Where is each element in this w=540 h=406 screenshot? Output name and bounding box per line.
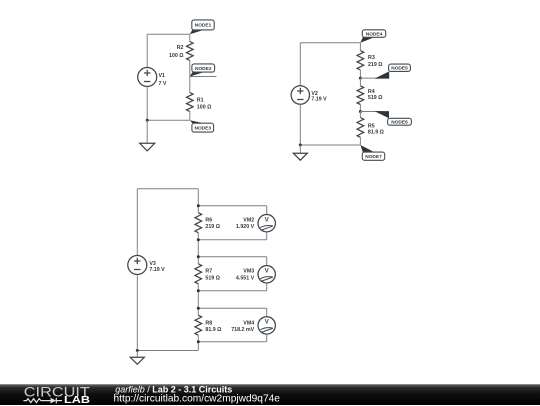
wire [266,308,268,317]
wire [359,70,361,78]
svg-text:LAB: LAB [64,395,90,406]
svg-text:VM3: VM3 [243,268,254,274]
svg-text:R2: R2 [177,45,184,51]
wire [189,34,191,41]
wire [198,205,266,207]
node NODE1 [190,30,204,34]
svg-text:7 V: 7 V [159,81,167,87]
svg-text:100 Ω: 100 Ω [169,53,184,59]
wire [299,43,301,86]
resistor R3 [357,51,364,70]
svg-text:R8: R8 [205,320,212,326]
svg-text:7.19 V: 7.19 V [149,267,165,273]
node NODE2 [190,72,204,76]
wire [198,256,266,258]
node junction [197,238,200,241]
node junction [359,110,362,113]
logo diode [51,397,57,403]
node junction [197,307,200,310]
wire [299,145,301,153]
node junction [197,204,200,207]
node NODE7 [360,145,374,152]
resistor R2 [187,42,194,61]
resistor R6 [195,213,202,233]
wire [266,334,268,342]
wire [359,112,361,118]
wire [189,77,191,93]
svg-text:http://circuitlab.com/cw2mpjwd: http://circuitlab.com/cw2mpjwd9q74e [114,393,281,404]
node junction [197,289,200,292]
node NODE3 [190,120,204,123]
resistor R5 [357,118,364,138]
voltmeter VM2 [258,215,275,232]
wire [359,137,361,145]
wire [190,76,217,78]
wire [136,189,138,256]
node NODE6 [360,111,382,113]
svg-text:4.551 V: 4.551 V [236,275,255,281]
wire [359,105,361,112]
wire [146,120,148,143]
wire [266,283,268,291]
svg-text:NODE2: NODE2 [195,66,212,72]
wire [146,34,148,67]
svg-text:R3: R3 [368,55,375,61]
wire [197,335,199,350]
svg-text:7.19 V: 7.19 V [311,96,327,102]
voltmeter VM3 [258,266,275,283]
voltage source V3 [128,256,147,275]
node junction [146,119,149,122]
wire [197,189,199,213]
wire [266,206,268,215]
wire [359,43,361,51]
wire [197,233,199,264]
voltmeter VM4 [258,317,275,334]
svg-text:NODE4: NODE4 [366,31,383,37]
wire [136,351,138,358]
wire [198,307,266,309]
node junction [299,144,302,147]
svg-text:81.9 Ω: 81.9 Ω [368,129,385,135]
resistor R7 [195,264,202,284]
svg-text:R7: R7 [205,268,212,274]
node NODE5 [360,77,382,79]
wire [359,78,361,86]
node junction [197,340,200,343]
svg-text:81.9 Ω: 81.9 Ω [205,327,222,333]
svg-text:NODE6: NODE6 [391,120,408,126]
wire [137,188,198,190]
svg-text:1.920 V: 1.920 V [236,224,255,230]
resistor R1 [187,93,194,112]
wire [147,119,190,121]
wire [266,257,268,266]
node NODE4 [360,37,374,43]
svg-text:100 Ω: 100 Ω [197,105,212,111]
wire [189,61,191,77]
svg-text:NODE1: NODE1 [195,23,212,29]
svg-text:NODE5: NODE5 [391,66,408,72]
node junction [197,255,200,258]
wire [147,33,190,35]
svg-text:718.2 mV: 718.2 mV [231,327,254,333]
voltage source V1 [138,68,157,87]
wire [137,350,198,352]
wire [300,42,360,44]
svg-text:V1: V1 [159,73,166,79]
logo resistor squiggle [24,398,51,402]
wire [198,290,266,292]
svg-text:R1: R1 [197,98,204,104]
svg-text:219 Ω: 219 Ω [205,224,220,230]
ground [293,153,307,160]
svg-text:219 Ω: 219 Ω [368,62,383,68]
wire [300,144,360,146]
wire [299,104,301,145]
voltage source V2 [291,86,309,104]
svg-text:519 Ω: 519 Ω [368,95,383,101]
resistor R4 [357,86,364,105]
wire [136,275,138,351]
svg-text:VM2: VM2 [243,217,254,223]
wire [197,284,199,315]
svg-text:R6: R6 [205,217,212,223]
resistor R8 [195,315,202,335]
wire [266,232,268,240]
svg-text:V3: V3 [149,261,156,267]
wire [189,112,191,121]
wire [146,87,148,121]
node junction [136,349,139,352]
ground [140,143,155,151]
ground [130,357,144,364]
svg-text:519 Ω: 519 Ω [205,275,220,281]
wire [198,341,266,343]
node junction [359,77,362,80]
svg-text:VM4: VM4 [243,320,254,326]
svg-text:NODE7: NODE7 [365,154,382,160]
wire [198,239,266,241]
svg-text:NODE3: NODE3 [194,125,211,131]
